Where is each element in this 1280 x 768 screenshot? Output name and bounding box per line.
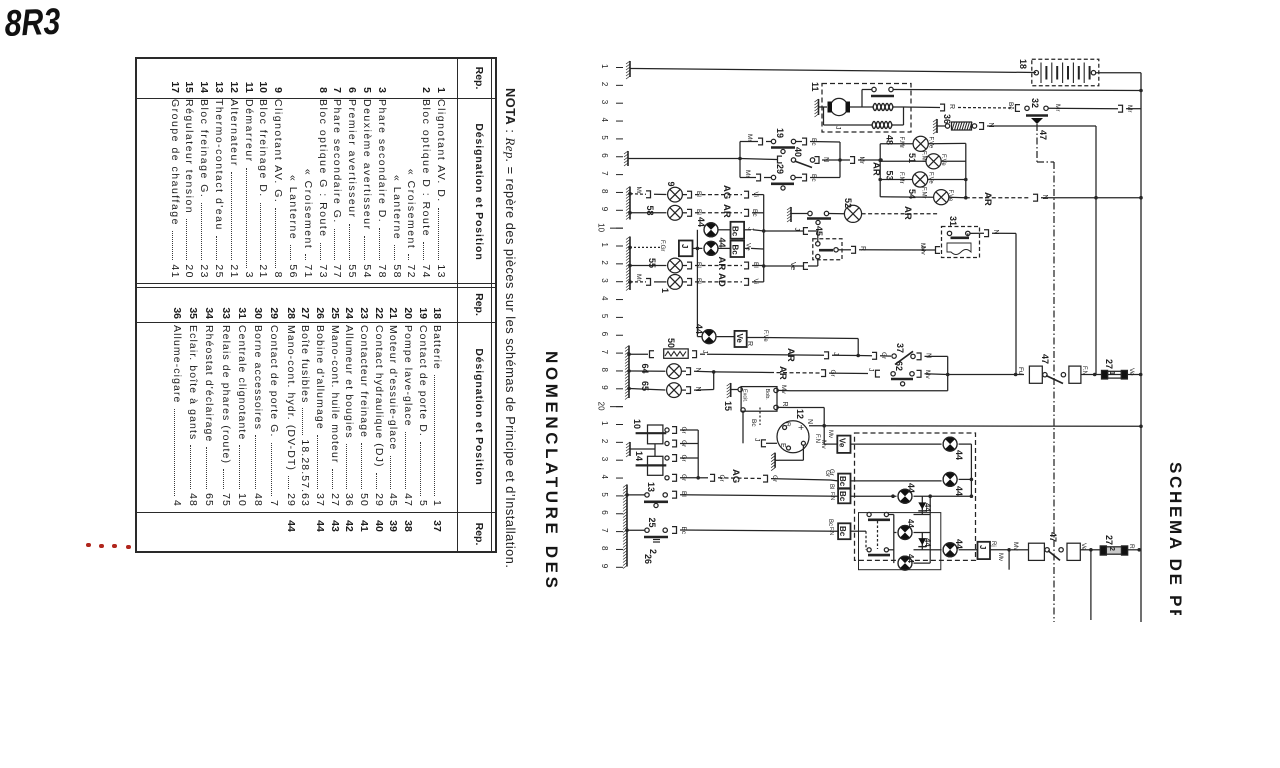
svg-text:Mr: Mr <box>858 157 865 165</box>
flasher relay 45 <box>764 226 842 270</box>
svg-text:6: 6 <box>600 332 609 337</box>
fuse 36 <box>933 114 994 134</box>
svg-text:AR: AR <box>721 204 732 218</box>
svg-text:F.Mr: F.Mr <box>921 151 927 163</box>
instrument panel box <box>855 433 976 560</box>
svg-text:65: 65 <box>640 381 650 391</box>
svg-text:F.N: F.N <box>828 527 834 535</box>
svg-text:Ve: Ve <box>1128 368 1135 376</box>
svg-text:AR: AR <box>785 348 796 362</box>
svg-text:AR: AR <box>871 162 882 176</box>
svg-text:Ve: Ve <box>745 243 752 251</box>
svg-text:18: 18 <box>1018 59 1028 69</box>
svg-text:Bc: Bc <box>1007 102 1014 110</box>
svg-text:F.Mr: F.Mr <box>898 137 904 149</box>
svg-text:50: 50 <box>666 338 676 348</box>
svg-text:62: 62 <box>894 361 904 371</box>
svg-text:2: 2 <box>1108 547 1115 551</box>
svg-text:N: N <box>806 419 813 424</box>
svg-text:Mv: Mv <box>780 385 787 394</box>
svg-text:44: 44 <box>906 554 915 563</box>
svg-text:3: 3 <box>600 278 609 283</box>
svg-text:J: J <box>680 244 689 248</box>
svg-text:40: 40 <box>793 147 803 157</box>
svg-text:AG: AG <box>730 469 741 483</box>
svg-text:10: 10 <box>597 223 606 232</box>
svg-text:F.Ve: F.Ve <box>940 154 946 166</box>
svg-text:7: 7 <box>600 528 609 533</box>
node link column <box>762 195 766 282</box>
svg-text:F.Ve: F.Ve <box>947 190 953 202</box>
svg-text:27: 27 <box>1104 535 1114 545</box>
svg-text:Gr: Gr <box>828 469 834 476</box>
svg-text:26: 26 <box>643 554 653 564</box>
switch 29 (route/croisement) <box>740 159 840 191</box>
svg-text:64: 64 <box>640 364 650 374</box>
svg-text:+: + <box>795 425 806 431</box>
svg-text:14: 14 <box>634 451 644 461</box>
ignition key line 47 <box>1037 124 1054 622</box>
svg-text:9: 9 <box>600 207 609 212</box>
svg-text:53: 53 <box>885 171 895 181</box>
svg-text:AG: AG <box>721 185 732 199</box>
svg-text:4: 4 <box>600 296 609 301</box>
wire battery to right bus <box>1096 72 1141 74</box>
svg-text:2: 2 <box>600 439 609 444</box>
oil lamp feed J box <box>628 230 702 337</box>
svg-text:Gr: Gr <box>718 475 725 483</box>
ignition switch 32 <box>1025 98 1048 124</box>
svg-text:5: 5 <box>600 314 609 319</box>
svg-text:2: 2 <box>600 82 609 87</box>
svg-text:R: R <box>746 341 753 346</box>
svg-text:6: 6 <box>600 153 609 158</box>
charge warning lamp 44 <box>943 437 971 496</box>
svg-text:8: 8 <box>600 367 609 372</box>
svg-text:47: 47 <box>1040 354 1050 364</box>
svg-text:Ve: Ve <box>1080 543 1087 551</box>
svg-text:51: 51 <box>907 153 917 163</box>
svg-text:32: 32 <box>1030 98 1040 108</box>
svg-text:Bc: Bc <box>731 226 740 237</box>
svg-text:9: 9 <box>666 182 676 187</box>
wire to panel Ve <box>814 434 837 449</box>
wire bus lighting feed <box>624 151 777 166</box>
svg-text:12: 12 <box>795 409 805 419</box>
svg-text:Mr: Mr <box>744 170 751 178</box>
horn 31 <box>920 216 1017 375</box>
svg-text:5: 5 <box>600 135 609 140</box>
wire AR rear N <box>966 192 1143 206</box>
svg-text:Bob.: Bob. <box>764 389 770 401</box>
svg-text:44: 44 <box>906 483 916 493</box>
svg-text:4: 4 <box>600 475 609 480</box>
svg-text:5: 5 <box>600 492 609 497</box>
svg-text:Mr: Mr <box>746 134 753 142</box>
svg-text:25: 25 <box>647 518 657 528</box>
svg-text:44: 44 <box>954 539 964 549</box>
svg-text:F.Mr: F.Mr <box>898 172 904 184</box>
svg-text:F.Ve: F.Ve <box>928 172 934 184</box>
wire AR J to switch 37 <box>785 348 891 362</box>
svg-text:1: 1 <box>600 243 609 248</box>
diodes <box>914 496 933 563</box>
svg-text:44: 44 <box>954 450 964 460</box>
svg-text:27: 27 <box>1104 359 1114 369</box>
wire Mr to headlamps <box>840 157 883 165</box>
svg-text:R: R <box>784 422 791 427</box>
svg-text:1: 1 <box>600 64 609 69</box>
svg-text:1: 1 <box>660 288 670 293</box>
wire right vertical bus <box>1140 73 1142 622</box>
svg-text:Fu: Fu <box>1017 367 1024 375</box>
relay 47 lower <box>1026 532 1100 620</box>
svg-text:44: 44 <box>717 238 727 248</box>
svg-text:Rj: Rj <box>990 541 996 547</box>
svg-text:7: 7 <box>600 350 609 355</box>
switch 37 62 <box>891 343 950 391</box>
svg-text:F.Ve: F.Ve <box>762 330 768 342</box>
svg-text:N: N <box>694 387 701 392</box>
svg-text:Bc: Bc <box>838 476 847 487</box>
oil pressure lamp 44 <box>894 519 930 570</box>
svg-text:N: N <box>1041 195 1048 200</box>
svg-text:J: J <box>747 227 754 231</box>
wire R to ignition <box>904 102 1021 111</box>
svg-text:F.N: F.N <box>814 434 820 443</box>
connector Bc oil <box>827 519 860 539</box>
oil lamp 44 Ve <box>694 324 858 356</box>
svg-text:Bc: Bc <box>750 419 757 427</box>
svg-text:7: 7 <box>600 171 609 176</box>
svg-text:R: R <box>948 104 955 109</box>
gauge connector J <box>978 541 1027 570</box>
svg-text:Bc: Bc <box>838 526 847 537</box>
svg-text:Bc: Bc <box>838 491 847 502</box>
fuse 27-2 <box>1100 535 1141 555</box>
svg-text:F.N: F.N <box>829 492 835 500</box>
svg-text:1: 1 <box>600 421 609 426</box>
svg-text:44: 44 <box>906 519 915 528</box>
svg-text:2: 2 <box>600 260 609 265</box>
svg-text:J: J <box>867 368 874 372</box>
relay 47 upper <box>1029 354 1142 384</box>
svg-text:AD: AD <box>716 273 727 287</box>
svg-text:Mr: Mr <box>635 274 642 282</box>
svg-text:F.Mr: F.Mr <box>921 187 927 199</box>
svg-text:58: 58 <box>645 206 655 216</box>
svg-text:44: 44 <box>696 217 706 227</box>
svg-text:Bl: Bl <box>695 278 702 284</box>
svg-text:F.N: F.N <box>1081 366 1087 375</box>
ruler scale (cm) <box>597 64 624 569</box>
headlamps 48 51 53 54 <box>871 135 968 205</box>
svg-text:9: 9 <box>600 564 609 569</box>
svg-text:AR: AR <box>982 192 993 206</box>
svg-text:52: 52 <box>843 198 853 208</box>
svg-text:J: J <box>701 350 708 354</box>
wire N charge <box>806 419 1143 428</box>
brake switch + lamp 52 <box>787 198 938 225</box>
regulator 15 <box>723 383 948 447</box>
svg-text:N: N <box>925 353 932 358</box>
svg-text:19: 19 <box>775 128 785 138</box>
svg-text:J: J <box>978 545 987 549</box>
switch 40 (selector) <box>778 147 842 168</box>
svg-text:3: 3 <box>600 457 609 462</box>
battery 18 <box>1018 59 1099 86</box>
svg-text:AR: AR <box>716 257 727 271</box>
wire N accessories <box>987 126 1096 375</box>
svg-text:44: 44 <box>954 486 964 496</box>
wire bus solenoid feed <box>893 89 1143 93</box>
svg-text:11: 11 <box>810 82 820 92</box>
svg-text:48: 48 <box>885 135 895 145</box>
svg-text:Mv: Mv <box>919 243 926 252</box>
svg-text:1: 1 <box>1108 371 1115 375</box>
svg-text:31: 31 <box>948 216 958 226</box>
wire AG interior light <box>698 469 838 483</box>
svg-text:N: N <box>987 123 994 128</box>
svg-text:E: E <box>779 443 786 448</box>
lamps 55 1 front left <box>626 237 764 294</box>
fuel gauge lamp 44 <box>930 539 977 557</box>
panel inner switches <box>859 512 941 569</box>
svg-text:J: J <box>834 126 841 130</box>
svg-text:Ve: Ve <box>735 334 744 344</box>
svg-text:Bc: Bc <box>731 245 740 256</box>
door contacts 10 14 <box>626 419 700 482</box>
tail lamps 64 65 <box>629 364 880 398</box>
svg-text:Mv: Mv <box>997 553 1003 561</box>
svg-text:Excit.: Excit. <box>742 389 748 403</box>
wire accessory feed <box>948 367 1024 376</box>
connector Bc Bc <box>828 469 942 503</box>
svg-text:6: 6 <box>600 510 609 515</box>
oil switch 25 <box>625 518 838 565</box>
svg-text:47: 47 <box>1038 130 1048 140</box>
wire ignition to bus N <box>1048 104 1141 113</box>
wire R to horn <box>838 243 935 253</box>
svg-text:Ve: Ve <box>838 438 847 448</box>
indicator repeater lamps 44 <box>851 472 974 503</box>
switch 19 (lanterne) <box>740 128 840 160</box>
svg-text:Mv: Mv <box>1012 542 1019 551</box>
svg-text:3: 3 <box>600 100 609 105</box>
svg-text:J: J <box>753 438 760 442</box>
svg-text:Bl: Bl <box>695 209 702 215</box>
rheostat 50 <box>625 338 824 400</box>
svg-text:Mv: Mv <box>827 430 833 438</box>
svg-text:54: 54 <box>907 189 917 199</box>
svg-text:Mr: Mr <box>635 187 642 195</box>
svg-text:8: 8 <box>600 546 609 551</box>
starter motor 11 (demarreur) <box>810 82 911 132</box>
thermo contact 13 <box>623 482 838 569</box>
svg-text:R: R <box>1128 544 1135 549</box>
svg-text:20: 20 <box>597 402 606 411</box>
svg-text:F.Gr: F.Gr <box>659 240 665 251</box>
svg-text:10: 10 <box>632 419 642 429</box>
svg-text:R: R <box>781 402 788 407</box>
svg-text:13: 13 <box>646 482 656 492</box>
svg-text:Mr: Mr <box>1054 104 1061 112</box>
wire bus battery + <box>630 69 1036 73</box>
svg-text:9: 9 <box>600 385 609 390</box>
svg-text:36: 36 <box>942 114 952 124</box>
indicator lamps 44 + connectors Bc Bc <box>696 217 764 257</box>
svg-text:AR: AR <box>902 206 913 220</box>
svg-text:55: 55 <box>647 258 657 268</box>
fuse 27-1 <box>1102 359 1136 379</box>
svg-text:4: 4 <box>600 118 609 123</box>
svg-text:37: 37 <box>895 343 905 353</box>
dynamo 12 <box>771 409 809 471</box>
svg-text:15: 15 <box>723 401 733 411</box>
svg-text:Mv: Mv <box>924 370 931 379</box>
connector Ve <box>827 430 942 453</box>
svg-text:Bc: Bc <box>827 519 833 526</box>
svg-text:Bc: Bc <box>810 174 817 182</box>
svg-text:29: 29 <box>775 164 785 174</box>
lamps 9 58 front right <box>626 182 764 221</box>
svg-text:F.Ve: F.Ve <box>928 137 934 149</box>
ground bus B+ top <box>626 61 630 79</box>
svg-text:44: 44 <box>694 324 704 334</box>
svg-text:8: 8 <box>600 189 609 194</box>
svg-text:Bl: Bl <box>828 484 834 489</box>
svg-text:47: 47 <box>1048 532 1058 542</box>
